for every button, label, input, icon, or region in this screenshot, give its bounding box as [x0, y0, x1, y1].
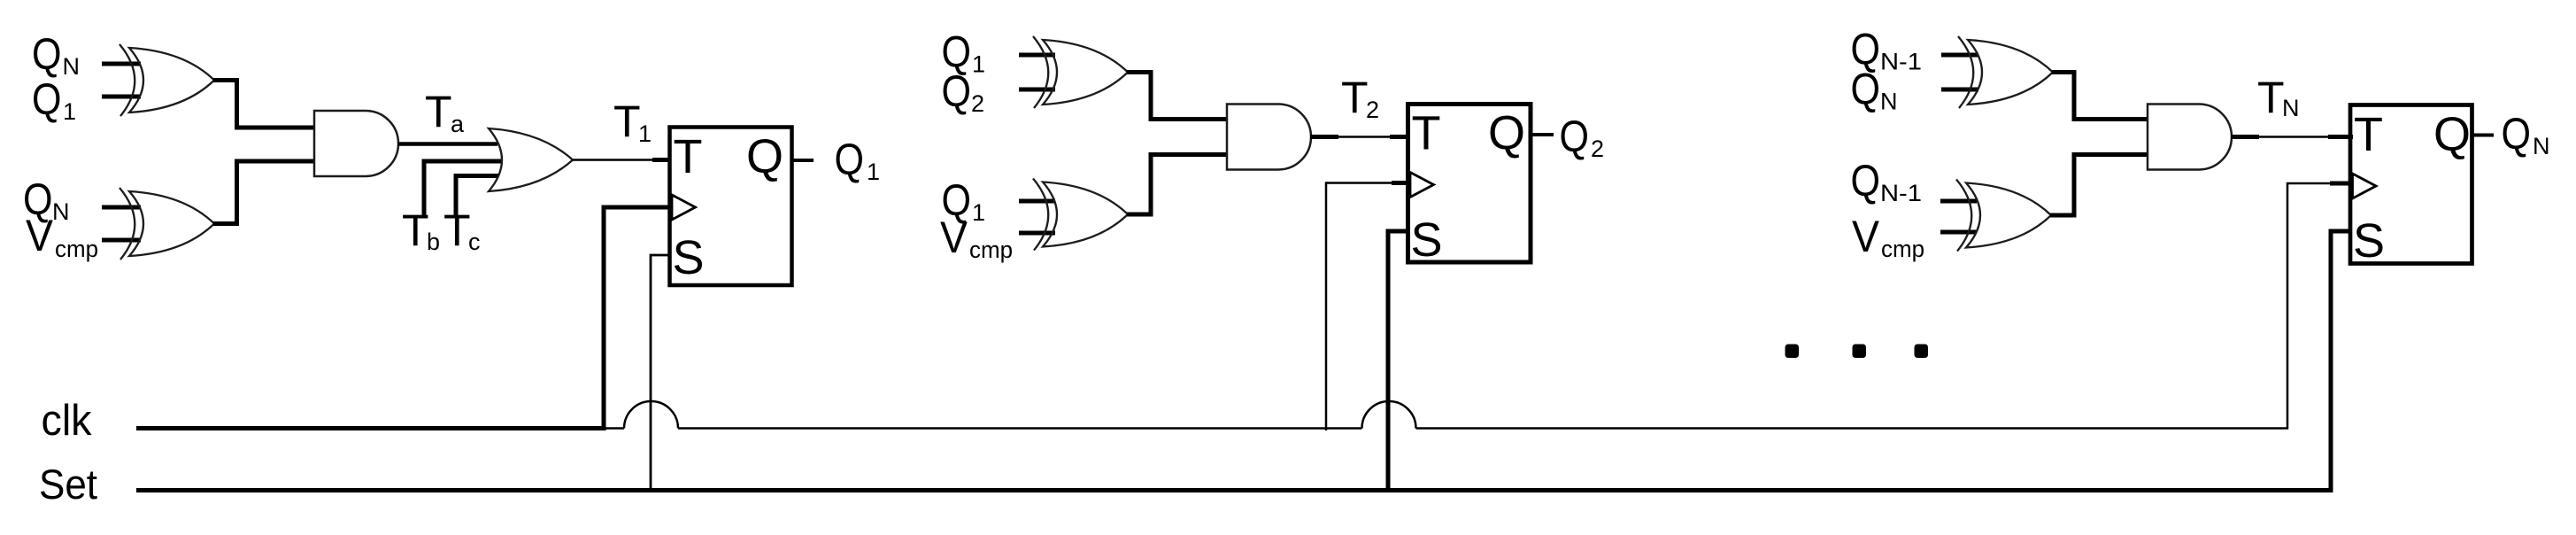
and gate A3 [2148, 105, 2232, 170]
svg-text:b: b [427, 229, 440, 255]
xor gate X3 [1033, 36, 1128, 108]
or gate O1 [489, 128, 573, 191]
svg-text:a: a [451, 111, 465, 137]
svg-text:N-1: N-1 [1880, 49, 1922, 75]
wire Tc input to OR1 [456, 176, 498, 217]
label Q1 input lower s2 [942, 175, 986, 226]
label Tb [402, 205, 440, 255]
svg-text:clk: clk [42, 397, 92, 445]
wire Set rail end up to FF3 S pin [2331, 231, 2350, 492]
label QN-1 input lower s3 [1851, 156, 1923, 206]
label QN input [32, 29, 80, 80]
wire T1 net OR1 output to FF1 [573, 159, 670, 161]
svg-text:Set: Set [39, 461, 97, 508]
svg-text:T: T [2257, 73, 2285, 122]
label Tc [443, 205, 481, 255]
node ellipsis dot 2 [1853, 345, 1867, 359]
svg-text:1: 1 [638, 120, 652, 147]
svg-text:N: N [2282, 95, 2300, 121]
svg-text:Q: Q [942, 66, 972, 116]
wire X5 output to AND3 [2052, 73, 2148, 120]
xor gate X2 [120, 188, 214, 260]
svg-text:Q: Q [746, 130, 783, 183]
svg-text:cmp: cmp [969, 236, 1013, 263]
wire clk rail thick left segment [136, 426, 605, 430]
svg-text:T: T [674, 130, 703, 183]
svg-text:T: T [402, 205, 429, 255]
svg-text:Q: Q [1488, 107, 1525, 160]
svg-text:T: T [443, 205, 471, 255]
svg-text:Q: Q [1851, 156, 1881, 205]
wire clk bridge hop over Set branch 2 [1362, 401, 1416, 429]
wire XOR4 input b [1019, 231, 1055, 236]
wire Set branch to FF2 S pin [1388, 231, 1408, 492]
svg-text:c: c [468, 229, 481, 255]
wire clk bridge hop over Set branch 1 [624, 401, 678, 428]
svg-text:S: S [1411, 213, 1443, 267]
label QN input lower [23, 174, 70, 225]
label Q1 input [32, 74, 76, 125]
label Q1 input s2 [942, 27, 986, 78]
and gate A1 [314, 111, 398, 176]
wire TN net AND3 output to FF3 [2231, 136, 2353, 138]
svg-text:Q: Q [32, 74, 62, 124]
label T1 [613, 97, 652, 147]
svg-text:Q: Q [32, 29, 62, 79]
svg-text:Q: Q [2433, 108, 2471, 161]
svg-text:N: N [52, 198, 70, 225]
wire clk rail middle segment [678, 427, 1362, 430]
wire X4 output to AND2 [1127, 155, 1228, 215]
label Vcmp input s2 [940, 213, 1013, 263]
wire X2 output to AND1 [213, 161, 315, 224]
wire XOR2 input a [102, 205, 141, 210]
wire clk rail thin segment before first bridge [604, 427, 625, 430]
svg-text:1: 1 [63, 98, 76, 125]
svg-text:N: N [1880, 89, 1898, 115]
label Q2 input s2 [942, 66, 985, 117]
wire XOR6 input b [1940, 230, 1977, 235]
xor gate X6 [1956, 180, 2051, 252]
label Vcmp input [26, 211, 98, 262]
wire FF2 Q output stub [1531, 133, 1554, 136]
svg-text:T: T [1341, 73, 1369, 122]
wire XOR4 input a [1019, 199, 1055, 204]
wire FF1 Q output stub [791, 159, 814, 162]
svg-text:T: T [2354, 108, 2383, 161]
svg-text:1: 1 [972, 51, 985, 78]
svg-text:2: 2 [971, 90, 984, 117]
svg-text:T: T [425, 87, 452, 136]
wire XOR5 input b [1941, 88, 1978, 92]
flip-flop FF1 [670, 128, 792, 286]
wire FF3 Q output stub [2472, 134, 2495, 137]
label T2 [1341, 73, 1379, 123]
wire clk rail end up to FF3 clock pin [2287, 183, 2350, 430]
svg-text:S: S [673, 231, 705, 284]
wire X6 output to AND3 [2050, 155, 2148, 216]
wire clk rail right segment [1416, 427, 2289, 430]
svg-text:2: 2 [1591, 136, 1604, 162]
wire XOR1 input a [102, 62, 141, 66]
label Q1 output [835, 135, 881, 185]
svg-text:N-1: N-1 [1880, 180, 1922, 206]
flip-flop FF3 [2350, 105, 2472, 268]
svg-text:2: 2 [1366, 97, 1379, 123]
svg-text:1: 1 [867, 159, 880, 185]
wire XOR3 input a [1019, 53, 1055, 58]
label TN [2257, 73, 2300, 122]
wire XOR3 input b [1019, 88, 1055, 92]
label Ta [425, 87, 465, 137]
node ellipsis dot 3 [1915, 345, 1929, 359]
svg-text:T: T [1412, 107, 1441, 160]
label QN input s3 [1851, 65, 1898, 115]
wire XOR1 input b [102, 95, 141, 99]
svg-text:Q: Q [2502, 109, 2532, 159]
svg-text:N: N [63, 53, 81, 80]
wire Tb input to OR1 [424, 161, 501, 216]
svg-text:V: V [1852, 212, 1880, 261]
xor gate X5 [1958, 36, 2053, 108]
xor gate X4 [1033, 179, 1128, 251]
svg-text:V: V [940, 213, 968, 262]
flip-flop FF2 [1408, 105, 1531, 267]
wire X3 output to AND2 [1127, 73, 1228, 120]
svg-text:T: T [613, 97, 641, 146]
xor gate X1 [120, 44, 214, 116]
wire clk branch to FF2 clock pin [1326, 183, 1408, 431]
node ellipsis dot 1 [1785, 345, 1800, 359]
and gate A2 [1227, 105, 1311, 170]
wire X1 output to AND1 [213, 81, 315, 128]
wire T2 net AND2 output to FF2 [1310, 136, 1409, 138]
svg-text:S: S [2353, 214, 2385, 267]
svg-text:Q: Q [1851, 65, 1881, 114]
svg-text:V: V [26, 211, 54, 260]
svg-text:Q: Q [835, 135, 865, 184]
label QN output [2502, 109, 2550, 159]
wire XOR6 input a [1940, 199, 1977, 204]
svg-text:N: N [2533, 133, 2550, 159]
wire XOR5 input a [1941, 53, 1978, 58]
label QN-1 input s3 [1851, 25, 1923, 75]
wire XOR2 input b [102, 238, 141, 243]
wire Set rail [136, 488, 2333, 492]
wire Set branch to FF1 S pin [651, 255, 669, 492]
svg-text:cmp: cmp [1881, 236, 1924, 262]
label Q2 output [1560, 112, 1605, 162]
label Vcmp input s3 [1852, 212, 1924, 262]
svg-text:1: 1 [972, 199, 985, 226]
svg-text:Q: Q [1560, 112, 1590, 161]
svg-text:cmp: cmp [55, 236, 98, 262]
wire clk branch to FF1 clock pin [604, 207, 669, 430]
wire Ta net AND1 output to OR1 [397, 142, 497, 146]
